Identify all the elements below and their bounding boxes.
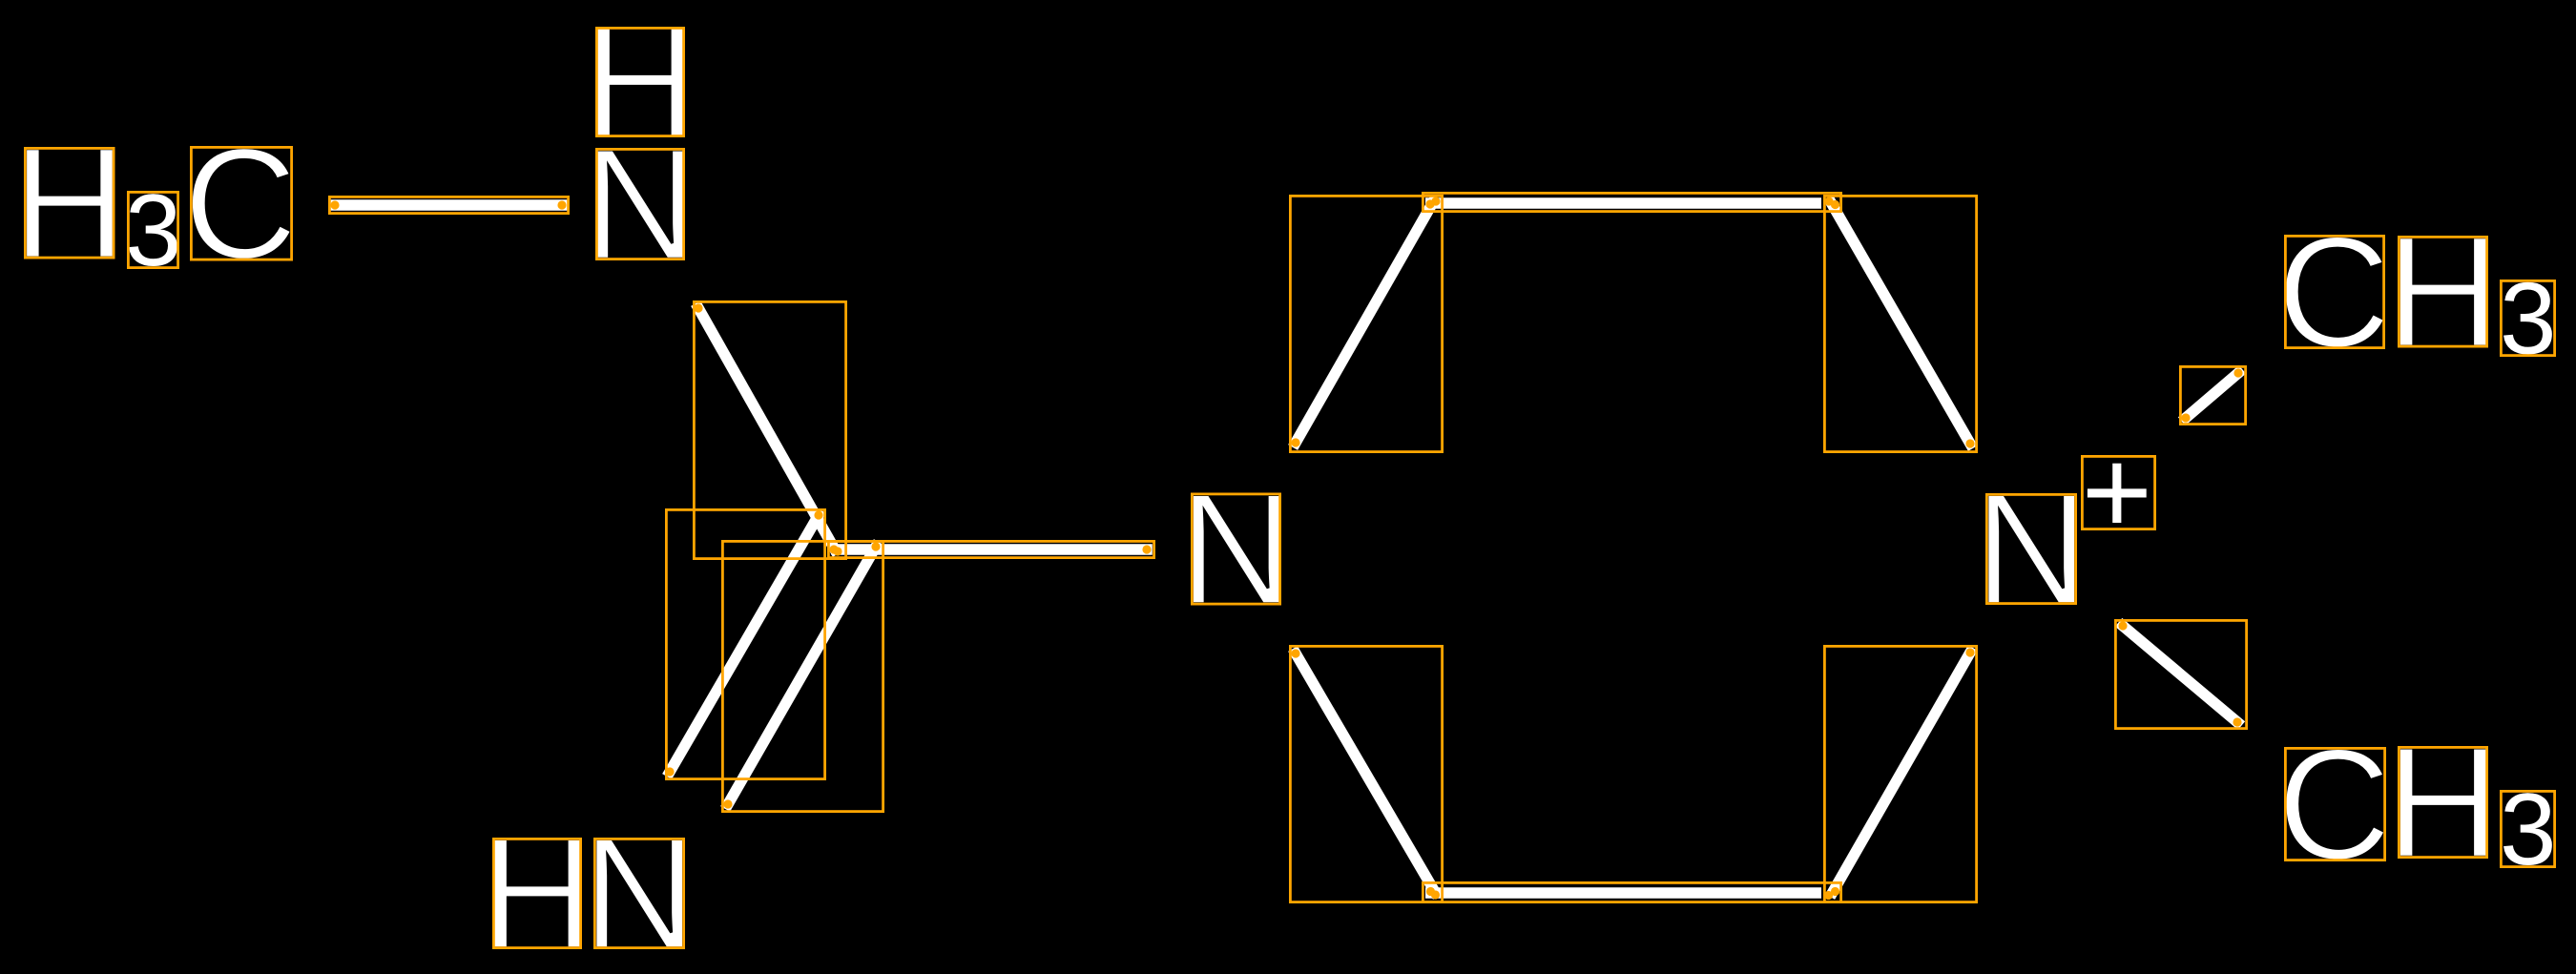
box ring bond 8 xyxy=(1824,196,1976,451)
node dot b13a xyxy=(2118,621,2127,630)
box H of NH xyxy=(596,28,683,135)
box H of bottom CH3 xyxy=(2399,747,2486,857)
node dot b10b xyxy=(1431,890,1440,899)
box C of H3C xyxy=(191,147,291,259)
svg-text:3: 3 xyxy=(125,173,182,287)
box bond 13 xyxy=(2115,620,2246,728)
box bond 1 xyxy=(329,197,568,213)
node dot b1b xyxy=(557,200,566,209)
wire ring bond top xyxy=(1425,197,1821,209)
box ring bond 6 xyxy=(1290,196,1442,451)
box C of top CH3 xyxy=(2285,236,2383,347)
wire ring bond left-bottom xyxy=(1296,653,1435,892)
node dot b12a xyxy=(2181,413,2190,422)
box H of HN xyxy=(493,839,580,947)
svg-text:C: C xyxy=(2276,204,2391,381)
box ring bond 11 xyxy=(1290,646,1442,901)
box bond 12 xyxy=(2180,366,2245,424)
wire bond C-N methyl xyxy=(335,199,562,211)
svg-text:H: H xyxy=(2386,204,2501,381)
node dot b8b xyxy=(1965,439,1974,447)
box N ring xyxy=(1192,494,1279,604)
svg-text:C: C xyxy=(2277,716,2392,893)
svg-text:+: + xyxy=(2082,424,2152,559)
svg-text:N: N xyxy=(1974,462,2088,638)
wire bond N+-CH3 top xyxy=(2186,373,2238,418)
node dot b3b xyxy=(665,767,674,776)
node dot b8a xyxy=(1831,200,1839,209)
node dot b13b xyxy=(2233,717,2241,726)
box H of top CH3 xyxy=(2399,237,2486,346)
box 3 of bottom CH3 xyxy=(2501,791,2554,866)
node dot b1a xyxy=(330,200,339,209)
svg-text:H: H xyxy=(12,115,127,292)
svg-text:C: C xyxy=(183,116,298,293)
node dot b3a xyxy=(814,510,822,519)
box bond 3 xyxy=(666,509,824,778)
box 3 of H3C xyxy=(128,192,177,267)
wire double bond line A xyxy=(670,515,819,772)
box C of bottom CH3 xyxy=(2285,748,2384,860)
svg-text:N: N xyxy=(1179,462,1294,638)
box N of HN xyxy=(594,839,683,947)
box plus sign xyxy=(2082,456,2154,528)
node dot b7b xyxy=(1824,197,1833,205)
node dot b6a xyxy=(1291,438,1299,446)
node dot b10a xyxy=(1824,891,1833,900)
wire ring bond right-top xyxy=(1831,202,1970,444)
node dot b2b xyxy=(829,545,838,553)
node dot b11a xyxy=(1426,887,1435,896)
box bond 2 xyxy=(694,301,845,558)
box N plus xyxy=(1986,494,2075,603)
node dot b4b xyxy=(723,799,732,808)
node dot b9b xyxy=(1831,887,1839,896)
wire double bond line B xyxy=(728,547,876,804)
node dot b5a xyxy=(833,547,841,555)
box bond 5 xyxy=(828,541,1153,557)
box ring bond 9 xyxy=(1824,646,1976,901)
node dot b2a xyxy=(694,303,702,312)
svg-text:3: 3 xyxy=(2500,772,2557,886)
box ring bond 10 xyxy=(1423,882,1840,901)
node dot b6b xyxy=(1425,199,1434,208)
node dot b5b xyxy=(1142,545,1151,553)
node dot b9a xyxy=(1965,648,1974,656)
wire bond C-N ring xyxy=(837,544,1147,555)
box N of NH xyxy=(596,149,683,259)
wire bond N+-CH3 bottom xyxy=(2123,626,2237,722)
box 3 of top CH3 xyxy=(2501,280,2554,355)
endpoint dots xyxy=(330,197,2242,900)
box bond 4 xyxy=(722,541,883,811)
node dot b4a xyxy=(871,542,880,550)
wire ring bond right-bottom xyxy=(1833,653,1970,892)
node dot b12b xyxy=(2233,368,2242,377)
svg-text:H: H xyxy=(2386,715,2501,891)
wire bond N-C amidine xyxy=(698,308,835,549)
wire ring bond bottom xyxy=(1425,887,1821,899)
svg-text:3: 3 xyxy=(2500,260,2557,375)
node dot b7a xyxy=(1431,197,1440,205)
box ring bond 7 xyxy=(1423,193,1840,211)
node dot b11b xyxy=(1291,649,1299,657)
svg-text:N: N xyxy=(583,116,697,293)
wire ring bond left-top xyxy=(1296,202,1433,443)
box H of H3C xyxy=(25,148,114,258)
